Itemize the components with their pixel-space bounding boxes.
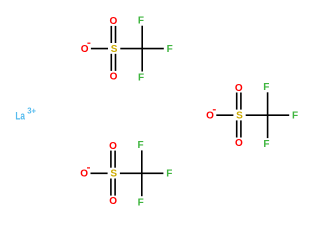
svg-text:O: O xyxy=(81,44,89,55)
bond C to F (right) xyxy=(142,172,164,174)
svg-text:O: O xyxy=(80,169,88,180)
svg-text:La: La xyxy=(15,111,25,123)
double bond S=O (top), line 1 xyxy=(110,26,112,43)
double bond S=O (top), line 1 xyxy=(110,151,112,168)
triflate anion 2 (right) xyxy=(206,82,298,150)
svg-text:O: O xyxy=(109,196,117,207)
svg-text:S: S xyxy=(236,111,243,122)
svg-text:F: F xyxy=(166,169,172,180)
svg-text:F: F xyxy=(138,15,144,26)
single bond O- to S xyxy=(91,172,108,174)
svg-text:S: S xyxy=(110,169,117,180)
single bond S to C xyxy=(120,172,142,174)
svg-text:F: F xyxy=(292,111,298,122)
bond C to F (top) xyxy=(267,92,269,115)
single bond S to C xyxy=(246,114,268,116)
double bond S=O (top), line 2 xyxy=(115,26,117,43)
bond C to F (bottom) xyxy=(141,173,143,196)
svg-text:O: O xyxy=(235,83,243,94)
triflate anion 3 (bottom left) xyxy=(80,140,172,208)
svg-text:O: O xyxy=(206,111,214,122)
svg-text:F: F xyxy=(138,197,144,208)
single bond S to C xyxy=(120,48,142,50)
single bond O- to S xyxy=(216,114,233,116)
bond C to F (bottom) xyxy=(141,49,143,72)
svg-text:F: F xyxy=(137,140,143,151)
svg-text:F: F xyxy=(263,139,269,150)
charge minus on left oxygen xyxy=(213,109,216,110)
charge minus on left oxygen xyxy=(87,43,90,44)
double bond S=O (top), line 2 xyxy=(114,151,116,168)
double bond S=O (bottom), line 2 xyxy=(240,120,242,137)
double bond S=O (bottom), line 1 xyxy=(236,120,238,137)
double bond S=O (top), line 1 xyxy=(236,93,238,110)
single bond O- to S xyxy=(91,48,108,50)
svg-text:F: F xyxy=(167,44,173,55)
bond C to F (right) xyxy=(268,114,290,116)
svg-text:3+: 3+ xyxy=(27,106,36,116)
svg-text:O: O xyxy=(235,138,243,149)
svg-text:O: O xyxy=(110,16,118,27)
svg-text:F: F xyxy=(263,82,269,93)
bond C to F (bottom) xyxy=(267,115,269,138)
svg-text:O: O xyxy=(109,141,117,152)
bond C to F (top) xyxy=(141,26,143,49)
double bond S=O (bottom), line 2 xyxy=(114,179,116,196)
charge minus on left oxygen xyxy=(87,167,90,168)
triflate anion 1 (top left) xyxy=(81,15,173,83)
double bond S=O (bottom), line 1 xyxy=(110,179,112,196)
svg-text:F: F xyxy=(138,73,144,84)
double bond S=O (top), line 2 xyxy=(240,93,242,110)
double bond S=O (bottom), line 1 xyxy=(110,54,112,71)
bond C to F (top) xyxy=(141,150,143,173)
svg-text:O: O xyxy=(110,72,118,83)
double bond S=O (bottom), line 2 xyxy=(115,54,117,71)
svg-text:S: S xyxy=(111,44,118,55)
bond C to F (right) xyxy=(142,48,164,50)
